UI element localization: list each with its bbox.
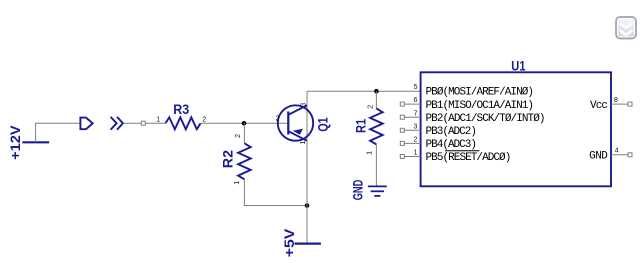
- svg-text:Q1: Q1: [315, 117, 330, 132]
- svg-text:1: 1: [365, 151, 374, 155]
- resistor R1: [354, 105, 383, 155]
- net continuation chevrons: [111, 117, 123, 130]
- svg-text:PB4(ADC3): PB4(ADC3): [426, 139, 478, 151]
- svg-text:R1: R1: [354, 118, 369, 133]
- pin 8 Vcc: [590, 95, 632, 112]
- svg-text:2: 2: [276, 114, 280, 123]
- pin 6 PB1: [400, 95, 534, 112]
- node junction R1 top: [374, 89, 379, 94]
- pin 7 PB2: [400, 108, 545, 125]
- svg-text:5: 5: [414, 82, 418, 91]
- pin 4 GND: [589, 146, 632, 163]
- pin 2 PB4: [400, 135, 477, 152]
- wire R2 to +5V rail: [244, 179, 307, 205]
- ground symbol: [351, 180, 387, 201]
- emitter arrow (PNP): [293, 129, 303, 135]
- IC U1: [421, 58, 611, 186]
- +12V supply symbol: [8, 125, 49, 160]
- wire pad to R3: [145, 122, 165, 124]
- pin 3 PB3: [400, 121, 477, 138]
- svg-text:7: 7: [414, 108, 418, 117]
- emitter line: [288, 131, 307, 140]
- vertical wire collector-emitter net: [306, 91, 308, 243]
- collector line: [288, 105, 307, 114]
- wire R3 to Q1 base: [201, 122, 289, 124]
- node junction R3/R2: [242, 121, 247, 126]
- pin 5 PB0: [414, 82, 535, 99]
- svg-text:1: 1: [232, 181, 241, 185]
- svg-text:1: 1: [156, 115, 160, 124]
- port pentagon: [80, 118, 92, 130]
- svg-text:PB2(ADC1/SCK/TØ/INTØ): PB2(ADC1/SCK/TØ/INTØ): [426, 113, 546, 125]
- wire junction to R1: [375, 91, 377, 108]
- svg-text:R3: R3: [173, 102, 189, 117]
- svg-text:PB1(MISO/OC1A/AIN1): PB1(MISO/OC1A/AIN1): [426, 100, 535, 112]
- svg-text:4: 4: [615, 146, 619, 155]
- svg-text:2: 2: [233, 134, 242, 138]
- svg-text:2: 2: [366, 105, 375, 109]
- svg-text:GND: GND: [351, 180, 366, 201]
- toolbar button icon: [616, 17, 636, 39]
- wire collector to U1 pin5: [307, 90, 421, 92]
- resistor R3: [156, 102, 206, 129]
- base bar: [287, 112, 289, 135]
- pin 1 PB5: [400, 148, 511, 165]
- node junction R2/+5V: [305, 203, 310, 208]
- svg-text:3: 3: [299, 103, 308, 107]
- svg-text:6: 6: [414, 95, 418, 104]
- RESET overline: [445, 150, 479, 152]
- wire junction to R2: [243, 123, 245, 143]
- svg-text:8: 8: [614, 95, 618, 104]
- svg-text:Vcc: Vcc: [590, 100, 608, 112]
- transistor Q1: [276, 103, 331, 145]
- svg-text:PBØ(MOSI/AREF/AINØ): PBØ(MOSI/AREF/AINØ): [426, 87, 535, 99]
- wire +12V to port: [36, 123, 81, 142]
- svg-text:R2: R2: [221, 150, 236, 168]
- svg-text:1: 1: [298, 141, 307, 145]
- svg-text:1: 1: [414, 148, 418, 157]
- svg-text:2: 2: [414, 135, 418, 144]
- svg-text:3: 3: [414, 121, 418, 130]
- resistor R2: [221, 134, 251, 185]
- wire chevron to R3: [123, 122, 141, 124]
- svg-text:PB5(RESET/ADCØ): PB5(RESET/ADCØ): [426, 152, 512, 164]
- wire R1 to ground: [375, 144, 377, 186]
- svg-text:PB3(ADC2): PB3(ADC2): [426, 126, 478, 138]
- svg-text:GND: GND: [589, 151, 608, 163]
- svg-text:+12V: +12V: [8, 125, 23, 160]
- svg-text:2: 2: [202, 115, 206, 124]
- pad square: [141, 121, 145, 125]
- +5V supply symbol: [282, 229, 321, 258]
- svg-text:U1: U1: [511, 58, 526, 73]
